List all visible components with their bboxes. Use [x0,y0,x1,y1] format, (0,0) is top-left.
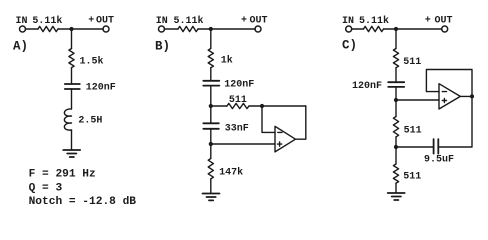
wire [198,28,255,30]
svg-text:120nF: 120nF [224,79,254,90]
text Notch = -12.8 dB [29,196,137,208]
resistor R 5.11k (B) [178,26,198,31]
node junction plus input (C) [394,98,398,102]
svg-text:1k: 1k [221,55,233,67]
wire [210,86,212,106]
resistor R 5.11k (C) [364,26,384,31]
capacitor 120nF (B) [203,81,219,86]
capacitor 120nF (C) [388,82,404,87]
node output junction (C) [470,94,474,98]
svg-text:IN: IN [16,16,28,27]
terminal IN (B) [159,26,165,32]
wire [58,28,103,30]
resistor R 1.5k (A) [69,49,74,68]
terminal +OUT (B) [255,26,261,32]
label +OUT (C) [425,15,453,26]
minus sign (C) [442,91,446,93]
wire [395,29,397,49]
label IN (A) [16,16,28,27]
node junction mid (C) [394,145,398,149]
wire [395,147,397,164]
resistor R 1k (B) [208,49,213,68]
minus sign (B) [278,131,282,133]
svg-text:A): A) [13,40,28,54]
value 9.5uF (C) [424,155,454,166]
wire feedback top (C) [426,70,472,97]
wire [211,105,227,107]
value 33nF (B) [225,123,249,134]
node junction (C) [394,27,398,31]
capacitor 33nF (B) [203,123,219,129]
node junction plus input (B) [209,142,213,146]
label B) [155,40,170,54]
svg-text:1.5k: 1.5k [80,55,104,67]
wire [396,146,434,148]
wire minus input (B) [262,106,275,132]
svg-text:511: 511 [403,57,421,68]
wire [210,129,212,144]
label +OUT (A) [88,15,114,26]
value 120nF (C) [352,81,382,92]
wire plus input (C) [396,99,439,101]
wire [71,89,73,109]
wire [71,68,73,84]
svg-text:OUT: OUT [96,15,114,26]
wire [395,137,397,147]
ground (B) [203,194,220,201]
svg-text:+: + [88,15,94,26]
svg-text:5.11k: 5.11k [359,15,389,27]
svg-text:511: 511 [404,126,422,137]
wire feedback (B) [296,106,306,139]
svg-text:511: 511 [403,172,421,183]
resistor R 511 mid (C) [393,117,398,137]
ground (C) [388,193,405,200]
svg-text:F = 291 Hz: F = 291 Hz [29,168,96,180]
svg-text:33nF: 33nF [225,123,249,134]
value 5.11k (B) [174,15,204,27]
wire [249,105,306,107]
resistor R 511 top (C) [393,49,398,68]
resistor R 5.11k (A) [38,26,58,31]
wire [438,96,472,147]
node junction (A) [69,27,73,31]
resistor R 511 bottom (C) [393,164,398,183]
wire [352,28,364,30]
node junction right of 511 (B) [260,104,264,108]
svg-text:120nF: 120nF [86,82,116,93]
svg-text:5.11k: 5.11k [32,15,62,27]
terminal IN (C) [346,26,352,32]
svg-text:120nF: 120nF [352,81,382,92]
wire output (C) [460,95,472,97]
wire [210,68,212,81]
label IN (B) [156,16,168,27]
label +OUT (B) [241,15,268,26]
wire [384,28,442,30]
svg-text:OUT: OUT [250,15,268,26]
svg-text:9.5uF: 9.5uF [424,155,454,166]
wire [210,179,212,193]
ground (A) [63,150,80,157]
wire [164,28,178,30]
wire [210,106,212,123]
resistor R 511 (B) [227,103,249,108]
value 5.11k (A) [32,15,62,27]
capacitor 120nF (A) [65,84,80,89]
value 1.5k (A) [80,55,104,67]
value 511 bottom (C) [403,172,421,183]
svg-text:2.5H: 2.5H [78,115,102,126]
value 1k (B) [221,55,233,67]
svg-text:5.11k: 5.11k [174,15,204,27]
plus sign (C) [442,98,446,102]
label IN (C) [342,16,354,27]
svg-text:+: + [241,15,247,26]
value 511 mid (C) [404,126,422,137]
wire [395,100,397,117]
svg-text:OUT: OUT [435,15,453,26]
svg-text:Q = 3: Q = 3 [29,183,63,195]
wire [395,183,397,192]
svg-text:C): C) [342,38,357,52]
resistor R 147k (B) [208,159,213,179]
svg-text:511: 511 [229,95,247,106]
value 120nF (A) [86,82,116,93]
inductor 2.5H (A) [64,109,71,130]
wire [210,144,212,159]
value 120nF (B) [224,79,254,90]
wire plus input (B) [211,143,275,145]
wire [395,87,397,100]
text F = 291 Hz [29,168,96,180]
wire [26,28,39,30]
svg-text:Notch = -12.8 dB: Notch = -12.8 dB [29,196,137,208]
plus sign (B) [278,142,282,146]
svg-text:147k: 147k [219,167,243,179]
node junction (B) [209,27,213,31]
terminal +OUT (C) [442,26,448,32]
label A) [13,40,28,54]
value 147k (B) [219,167,243,179]
terminal IN (A) [20,26,26,32]
capacitor 9.5uF (C) [434,139,439,153]
value 511 top (C) [403,57,421,68]
value 511 (B) [229,95,247,106]
wire [395,68,397,82]
svg-text:+: + [425,15,431,26]
label C) [342,38,357,52]
terminal +OUT (A) [103,26,109,32]
op-amp U1 (B) [275,126,296,152]
wire [71,130,73,150]
node junction left of 511 (B) [209,104,213,108]
text Q = 3 [29,183,63,195]
op-amp U2 (C) [439,84,460,109]
svg-text:B): B) [155,40,170,54]
value 5.11k (C) [359,15,389,27]
value 2.5H (A) [78,115,102,126]
wire [210,29,212,49]
wire [71,29,73,49]
